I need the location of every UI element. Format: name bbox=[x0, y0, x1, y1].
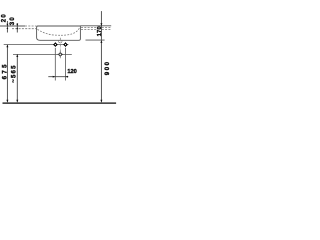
dim 120 extension lines bbox=[54, 48, 56, 81]
centerline (dash-dot) bbox=[59, 38, 61, 59]
minus30 level dashed right after text bbox=[102, 28, 111, 30]
dim 675 arrowheads bbox=[6, 45, 8, 103]
arrow at basin bottom bbox=[100, 40, 102, 43]
svg-text:675: 675 bbox=[3, 62, 9, 79]
mounting point crosshair left bbox=[53, 42, 57, 46]
675 level line bbox=[4, 44, 69, 46]
basin outline bbox=[37, 26, 81, 40]
170 bottom extension line bbox=[86, 39, 105, 41]
dim 565 stem bbox=[16, 54, 18, 102]
dim 170/900 stem bbox=[100, 11, 102, 102]
floor line bbox=[3, 102, 117, 104]
bowl hidden contour (dashed) bbox=[38, 28, 80, 36]
dim 120 line bbox=[48, 76, 68, 78]
dim 20 arrowheads bbox=[6, 24, 8, 29]
drain connection crosshair bbox=[58, 52, 63, 58]
565 level line bbox=[13, 53, 72, 55]
minus20 level dashed right bbox=[81, 27, 96, 29]
drain stub (hidden) bbox=[59, 40, 62, 42]
svg-text:20: 20 bbox=[1, 13, 7, 22]
svg-text:170: 170 bbox=[97, 26, 103, 36]
minus20 level dashed right after text bbox=[102, 27, 111, 29]
mounting point crosshair right bbox=[63, 42, 67, 46]
rim level extension left (solid part) bbox=[0, 25, 25, 27]
dim 30 stem bbox=[16, 23, 18, 33]
dim 675 stem bbox=[6, 45, 8, 103]
arrow at rim level bbox=[100, 23, 102, 26]
dim 20 stem bbox=[6, 21, 8, 33]
minus30 level dashed left bbox=[12, 28, 36, 30]
svg-text:~565: ~565 bbox=[11, 64, 17, 82]
rim level extension left (dashed part) bbox=[25, 25, 36, 27]
dim 120 arrowheads bbox=[53, 76, 68, 78]
minus30 level dashed right bbox=[81, 28, 96, 30]
rim level extension right bbox=[80, 25, 111, 27]
arrow at floor bbox=[100, 100, 102, 103]
svg-text:120: 120 bbox=[67, 69, 76, 75]
svg-text:30: 30 bbox=[10, 16, 16, 25]
dim 565 arrowheads bbox=[16, 54, 18, 102]
svg-text:900: 900 bbox=[105, 60, 111, 75]
dim 30 arrowheads bbox=[16, 24, 18, 29]
background bbox=[0, 0, 118, 118]
